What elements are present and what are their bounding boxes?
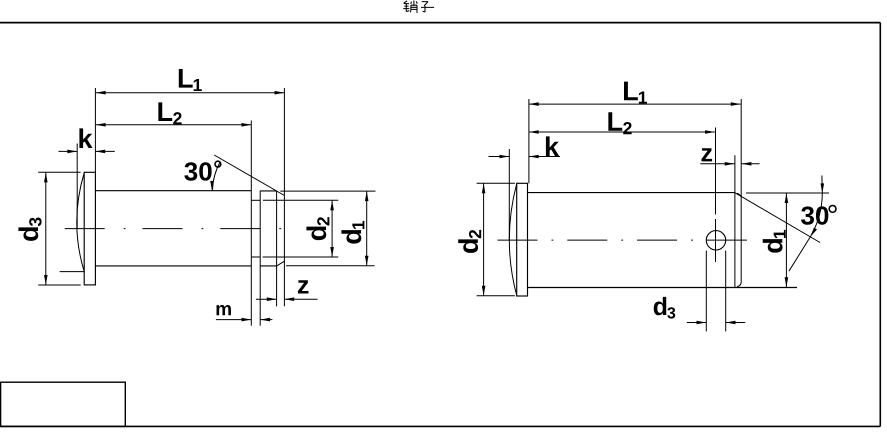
dimension k line right with arrow (95, 150, 114, 154)
dimension d2 line left pin (330, 200, 334, 257)
dimension d1 extension top left pin (280, 190, 375, 192)
left pin body bottom line (95, 265, 251, 267)
dimension d3 extension top (38, 171, 80, 173)
right pin hole right extension line (725, 251, 727, 332)
left pin centerline (65, 228, 297, 230)
label L1 right (624, 82, 647, 104)
left pin chamfer start edge (276, 191, 278, 306)
right pin hole left extension line (705, 251, 707, 332)
dimension d1 extension top right pin (746, 192, 829, 194)
title block box bottom-left (1, 382, 126, 426)
left pin crown base line (60, 271, 85, 273)
label k left (79, 128, 92, 148)
label d1 right (763, 230, 786, 253)
angle 30 deg arc left (210, 162, 220, 191)
label L2 left (158, 102, 181, 124)
label d2 left (306, 217, 329, 240)
left pin domed head crown arc (77, 173, 84, 272)
left pin end land top line (260, 190, 276, 192)
dimension L2 line right pin (529, 130, 715, 134)
label L2 right (608, 112, 631, 134)
drawing frame top border (0, 22, 880, 24)
right pin chamfer construction line 30 deg (735, 193, 820, 243)
dimension d2 extension bottom left pin (263, 256, 339, 258)
dimension m line left pin (216, 318, 273, 322)
label L1 left (179, 69, 202, 91)
label d3 right (654, 297, 676, 319)
drawing frame bottom border (0, 425, 880, 427)
dimension k shared extension right (head face) (94, 88, 96, 172)
label z right (702, 148, 713, 161)
right pin body bottom line (528, 287, 798, 289)
dimension L1 line left pin (96, 91, 285, 95)
dimension z line right pin (700, 162, 759, 166)
right pin head flange (517, 183, 528, 296)
right pin L1-z right extension line (740, 99, 742, 197)
label k right (546, 136, 559, 156)
right pin end face (737, 193, 741, 287)
left pin end face / L1-z extension line (283, 88, 285, 306)
dimension d2 extension top right pin (477, 182, 515, 184)
right pin body top line (528, 192, 735, 194)
left pin groove right edge (259, 191, 261, 326)
label d1 left (341, 221, 364, 244)
dimension L1 line right pin (529, 102, 741, 106)
left pin bottom chamfer line (277, 261, 285, 266)
label d2 right (458, 230, 481, 253)
left pin groove bottom bottom line (251, 256, 260, 258)
dimension k extension left (76, 144, 78, 230)
left pin head flange (84, 172, 95, 285)
label 30 deg right (801, 206, 828, 224)
left pin groove left edge (250, 121, 252, 326)
dimension d1 line right pin (785, 193, 789, 287)
degree symbol right (829, 206, 836, 213)
right pin chamfer start edge (734, 155, 736, 287)
dimension d3 extension bottom (38, 284, 80, 286)
dimension d2 extension top left pin (263, 199, 338, 201)
dimension d3 line (44, 173, 48, 285)
dimension d2 extension bottom right pin (477, 295, 515, 297)
dimension L2 line left pin (96, 123, 252, 127)
label z left (298, 280, 309, 293)
angle 30 deg arc right (789, 176, 824, 272)
left pin chamfer construction line 30 deg (214, 155, 284, 196)
dimension k shared extension (head face) right pin (528, 99, 530, 183)
dimension k extension left right-pin (crown apex) (508, 149, 510, 240)
right pin hole vertical centerline / L2 extension (715, 128, 717, 263)
degree symbol left (215, 161, 221, 167)
right pin domed head crown arc (509, 184, 516, 296)
label d3 left (18, 218, 41, 241)
dimension d2 line right pin (482, 183, 486, 295)
right pin centerline (498, 239, 749, 241)
dimension d3 line right pin (687, 321, 746, 325)
dimension k line left with arrow (59, 150, 78, 154)
dimension d1 line left pin (365, 191, 369, 266)
dimension d1 extension bottom left pin (286, 265, 375, 267)
dimension k line left with arrow right pin (489, 155, 510, 159)
drawing frame right border (879, 23, 881, 427)
right pin hole (706, 231, 725, 250)
title text 销子 (pin) (403, 1, 434, 13)
left pin body top line (95, 190, 251, 192)
label 30 deg left (184, 162, 211, 180)
left pin end land bottom line (260, 265, 276, 267)
dimension k line right with arrow right pin (529, 155, 560, 159)
left pin groove bottom top line (251, 199, 260, 201)
label m left (216, 305, 230, 315)
dimension z line left pin (256, 297, 318, 301)
